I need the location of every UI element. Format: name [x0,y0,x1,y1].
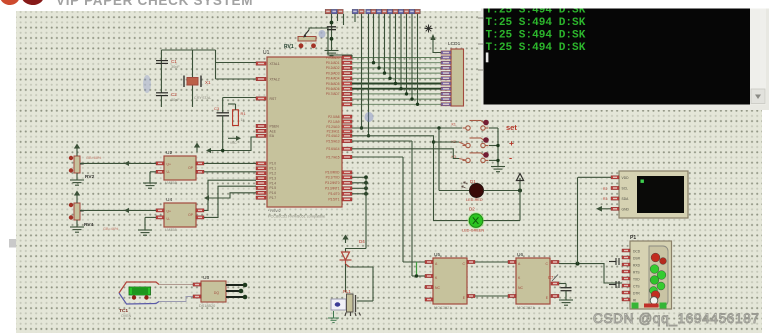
junction P3 junction 1 [364,175,368,179]
net label 13 [404,9,410,14]
net label 5 [359,9,365,14]
svg-text:P1: P1 [630,235,636,241]
svg-text:P1.7: P1.7 [270,196,277,200]
junction U3 out1 end [243,283,248,288]
op-amp U4 body [164,203,196,227]
svg-text:P1.0: P1.0 [270,162,277,166]
pin U2 in2 [156,170,164,173]
wire U3 out2 [226,290,240,292]
wire TC1 bottom to U3 [159,297,193,302]
wire wire into D1 [439,190,470,192]
power terminal U2 supply [195,144,199,153]
svg-text:P0.4/AD4: P0.4/AD4 [326,77,340,81]
pin U1 P1.3 [256,176,266,179]
pin U1 P1.0 [256,162,266,165]
op-amp U2 body [164,156,196,180]
svg-text:GB=68%: GB=68% [86,156,102,160]
pin LCD1 pin 4 [441,66,451,69]
wire P2 to U5 a [352,156,403,158]
oven TC1 outline bottom [119,293,159,304]
wire wire to LCD2 pin4 [600,208,611,210]
junction bus corner 8 [410,97,413,100]
wire P2 to K2/D2 drop [352,136,468,221]
wire U6 to LCD2 vertical [577,177,579,263]
pin LCD1 pin 7 [441,82,451,85]
svg-text:PCC80C52 RVR/8051 compatible: PCC80C52 RVR/8051 compatible [268,215,325,219]
svg-text:DS18B20: DS18B20 [199,304,215,308]
pin U1 P2.0 [342,115,352,118]
watermark logo blob right [20,0,45,6]
P1 connector symbol a [609,258,619,265]
wire U5 vertical a [402,157,404,262]
wire RV4 wiper to U4 [80,209,156,211]
svg-text:GND: GND [622,207,630,211]
pin LCD1 pin 8 [441,87,451,90]
svg-text:P0.6/AD6: P0.6/AD6 [326,87,340,91]
virtual terminal screen [484,9,751,105]
svg-text:P0.1/AD1: P0.1/AD1 [326,61,340,65]
net label 10 [387,9,393,14]
P1 indicator 4 [657,271,666,280]
wire K2 lead [459,142,466,145]
svg-text:SDA: SDA [622,197,630,201]
svg-text:P2.4/A12: P2.4/A12 [326,134,339,138]
wire bus vertical 7 [406,14,408,94]
net label 8 [376,9,382,14]
net label 6 [366,9,372,14]
svg-text:P3.2/INT0: P3.2/INT0 [325,181,340,185]
svg-text:U4: U4 [166,197,172,203]
pin U5 pin5 [467,294,475,297]
svg-text:P1.1: P1.1 [270,167,277,171]
junction C4 rail top [330,21,334,25]
pin LCD2 pin 3 [611,197,619,200]
P1 indicator 8 [651,291,660,300]
wire bus vertical 9 [417,14,419,104]
svg-text:P1.3: P1.3 [270,176,277,180]
svg-text:RV4: RV4 [84,222,94,228]
svg-text:P1.6: P1.6 [270,191,277,195]
pin U1 P2.4 [342,134,352,137]
wire bus vertical 3 [384,14,386,73]
wire U2 gnd lead [149,172,151,183]
pin P1 pin 2 [622,256,630,259]
svg-text:T:25 S:494 D:SK: T:25 S:494 D:SK [486,42,586,54]
P1 bottom marker right [660,303,667,309]
svg-text:D1: D1 [470,179,476,184]
svg-text:VDD: VDD [622,176,630,180]
arrow on LCD2 gnd wire [596,206,602,212]
power terminal Q1 collector supply [343,236,347,244]
pin U1 P0.4 [342,77,352,80]
svg-text:P0.3/AD3: P0.3/AD3 [326,71,340,75]
junction rail junction 1 [496,144,499,147]
pin P1 pin 5 [622,277,630,280]
wire U2 out2 to P1.1 [204,171,256,173]
wire RV4 bottom lead [76,220,78,227]
wire wire to RST [223,97,256,99]
wire U6 pin5 stub [559,283,566,285]
wire wire EA link [211,137,256,151]
watermark csdn text [593,311,760,326]
pin U2 out1 [196,162,204,165]
svg-text:X1: X1 [205,80,211,85]
svg-text:30pF: 30pF [171,65,180,69]
junction bus corner 2 [377,66,380,69]
wire U5 green link [416,262,418,276]
junction bus corner 6 [399,87,402,90]
arrow U2 vcc wire [206,148,211,153]
wire drop to D1 [438,128,440,191]
svg-text:P0.7/AD7: P0.7/AD7 [326,92,340,96]
pin U1 P2.7 [342,155,352,158]
net label 9 [382,9,388,14]
pin LCD1 pin 6 [441,77,451,80]
wire U4 out2 to P1.4 [204,186,256,217]
diode D4 [340,252,352,267]
svg-text:30pF: 30pF [171,98,180,102]
svg-text:D4: D4 [359,239,365,244]
wire U5 in2 wire [412,275,425,277]
junction rail junction 2 [496,159,499,162]
wire P3 stub 2 [352,182,366,184]
pin LCD1 pin 2 [441,56,451,59]
wire bend to diode [346,249,367,253]
pin U1 P1.4 [256,181,266,184]
wire bus vertical 8 [411,14,413,99]
svg-text:P0.5/AD5: P0.5/AD5 [326,82,340,86]
pin P1 pin 6 [622,284,630,287]
pin U1 P0.2 [342,66,352,69]
wire LCD1 power wire [433,40,441,53]
wire P0 bus horizontal 3 [352,67,441,69]
svg-text:P0.0/AD0: P0.0/AD0 [326,56,340,60]
svg-text:GB=46%: GB=46% [103,227,119,231]
wire U4 gnd lead [144,217,146,230]
power terminal RV2 top [75,145,79,157]
wire P0 bus horizontal 4 [352,72,441,74]
svg-text:U5: U5 [434,252,440,258]
ground RV2 [70,180,84,185]
junction U6 out junction [576,262,580,266]
svg-text:RI: RI [633,299,636,303]
C7 variable tick [552,275,558,282]
relay RL1 legs [345,313,361,317]
scrollbar thumb left margin [9,239,16,248]
wire P0 bus horizontal 10 [352,103,441,105]
arrow to LCD1 power [430,34,435,40]
net label 3 [338,9,344,14]
svg-text:SCL: SCL [622,187,629,191]
pin U3 pin2 [193,295,201,298]
svg-text:LCD1: LCD1 [448,41,461,47]
pin U1 XTAL2 [256,77,266,80]
svg-text:DTR: DTR [633,292,640,296]
svg-text:RTS: RTS [633,271,640,275]
wire long vertical to K2 [368,14,370,136]
svg-text:R2: R2 [603,187,607,191]
wire bus vertical 1 [373,14,375,63]
wire U5 to U6 bottom [475,295,508,297]
junction P3 junction 4 [364,192,368,196]
svg-text:U1: U1 [263,50,270,56]
junction bus corner 3 [383,71,386,74]
crystal X1 [184,76,201,88]
net label 4 [352,9,358,14]
wire P0 bus horizontal 1 [352,57,441,59]
wire K1 right stub [489,127,498,129]
svg-text:P2.5/A13: P2.5/A13 [326,139,339,143]
pin LCD1 pin 1 [441,51,451,54]
junction C4 rail lower [330,37,334,41]
svg-text:LED-GREEN: LED-GREEN [462,229,484,233]
net label 14 [409,9,415,14]
terminal border tick marks [478,18,483,70]
svg-text:P1.4: P1.4 [270,181,277,185]
wire RV2 bottom lead [76,173,78,180]
ground buttons [491,167,505,172]
wire P3 stub 3 [352,187,366,189]
svg-text:VCC: VCC [230,141,237,145]
wire P0 bus horizontal 2 [352,62,441,64]
svg-text:R1: R1 [241,111,247,116]
pin U4 out1 [196,209,204,212]
pin U2 in1 [156,162,164,165]
terminal white band redraw [481,0,769,9]
P1 bottom bar [644,304,659,308]
junction K1 top junction [360,126,363,129]
pin U4 in1 [156,209,164,212]
oven TC1 heater [129,287,151,295]
connector P1 shell [649,246,668,306]
pin U1 P0.7 [342,92,352,95]
connector P1 body [630,241,672,309]
pin U1 P0.0 [342,56,352,59]
P1 connector symbol b [609,281,619,288]
wire reset cap lead [222,98,224,113]
wire U4 vcc link [209,193,256,198]
wire RV2 wiper to U2 [80,162,156,164]
ground U4 [138,230,152,235]
wire P3 stub 4 [352,193,366,195]
junction U3 out3 end [243,295,248,300]
wire R1 top lead [235,104,237,110]
svg-text:U+: U+ [167,163,171,167]
microcontroller U1 body [267,57,342,207]
pin U1 P1.7 [256,196,266,199]
pin U1 P1.5 [256,186,266,189]
terminal scrollbar track [750,9,766,105]
svg-text:XTAL1: XTAL1 [270,62,280,66]
switch K1 set button [463,121,489,131]
wire P3 stub 1 [352,176,366,178]
svg-text:K1: K1 [452,123,456,127]
net label 1 [325,9,331,14]
pin LCD1 pin 3 [441,61,451,64]
svg-text:DSR: DSR [633,257,641,261]
pin U6 pin5 [551,282,559,285]
wire crystal top horizontal [161,49,215,51]
pin U1 P2.6 [342,147,352,150]
svg-text:LM358: LM358 [165,181,177,185]
svg-text:+: + [509,138,514,148]
svg-text:-: - [509,153,512,164]
pin U1 P2.3 [342,130,352,133]
svg-text:CRYSTAL: CRYSTAL [194,96,211,100]
svg-text:T:25 S:494 D:SK: T:25 S:494 D:SK [486,30,586,42]
display connector LCD1 body [451,49,464,106]
wire terminal vertical [519,178,521,221]
relay RL1 body [347,294,354,312]
svg-text:DCD: DCD [633,250,641,254]
wire P2 to K3 [352,149,459,159]
junction bus corner 9 [416,103,419,106]
pin U1 P3.3 [342,187,352,190]
svg-text:RXD: RXD [633,264,641,268]
pin U1 XTAL1 [256,62,266,65]
pin U5 pin3 [425,285,433,288]
net label 12 [398,9,404,14]
wire wire to XTAL2 [216,78,257,80]
svg-text:RV2: RV2 [85,174,95,180]
switch K2 plus button [463,138,489,148]
pin U1 P0.8 [342,97,352,100]
svg-text:U+: U+ [167,210,171,214]
junction K2 branch [432,140,435,143]
svg-text:MOC3021: MOC3021 [517,306,534,310]
wire C4 rail vertical [331,14,333,51]
pin LCD1 pin 9 [441,92,451,95]
wire long vertical to K1 [361,14,363,128]
pin LCD2 pin 4 [611,207,619,210]
junction P3 junction 3 [364,186,368,190]
LCD2 screen [637,176,684,213]
pin U5 pin1 [425,260,433,263]
wire wire to XTAL1 [216,62,257,64]
capacitor C4 [327,27,336,30]
resistor RV2 potentiometer [74,156,80,173]
svg-text:* RSV/2: * RSV/2 [268,209,281,213]
net label 11 [393,9,399,14]
diode D2 LED-GREEN [468,212,484,228]
wire U2 in2 stub [150,171,156,173]
IC U5 body [433,258,467,304]
wire wire to LCD2 pin1 [578,176,611,178]
svg-text:P2.6/A14: P2.6/A14 [326,147,339,151]
wire bus vertical 6 [400,14,402,89]
wire right vertical to MCU [215,50,217,79]
svg-text:CTS: CTS [633,285,640,289]
svg-text:XTAL2: XTAL2 [270,77,280,81]
junction bus corner 1 [372,61,375,64]
pin U1 P2.5 [342,139,352,142]
net label 15 [415,9,421,14]
svg-text:P3.0/RXD: P3.0/RXD [325,171,340,175]
svg-text:P2.3/A11: P2.3/A11 [327,130,340,134]
decorative watermark smudge 1 [143,75,151,93]
svg-text:ALE: ALE [270,129,277,133]
resistor R1 [233,110,239,126]
pin U1 P0.9 [342,103,352,106]
arrow VCC terminal [228,137,236,139]
P1 bottom marker left [632,303,639,309]
svg-text:MOC3021: MOC3021 [434,306,451,310]
junction U5 green junction [415,274,418,277]
wire U3 out3 [226,296,244,298]
svg-text:P3.1/TXD: P3.1/TXD [326,176,341,180]
wire P0 bus horizontal 8 [352,93,441,95]
oven TC1 pin dot right [144,295,148,299]
svg-text:P2.2/A10: P2.2/A10 [326,125,339,129]
svg-text:P3.5/T1: P3.5/T1 [328,198,339,202]
P1 indicator 1 [651,253,660,262]
decorative watermark smudge 3 [365,112,374,122]
wire left vertical C1-C2 [160,50,162,93]
resistor RV4 potentiometer [74,203,80,220]
wire D1 to terminal [484,190,521,192]
wire P0 bus horizontal 5 [352,77,441,79]
wire U2 out1 to P1.0 [204,162,256,164]
IC U6 body [516,258,550,304]
pin U1 EA [256,134,266,137]
display LCD2 frame [619,171,688,218]
wire stub label 2 [337,14,339,21]
output terminal triangle [516,174,523,181]
svg-text:U2: U2 [166,150,172,156]
wire C7 bottom lead [565,291,567,300]
wire K3 right stub [489,159,498,161]
svg-text:P1.2: P1.2 [270,172,277,176]
pin U1 PSEN [256,124,266,127]
pin P1 pin 3 [622,263,630,266]
wire branch to K2 [434,141,460,143]
junction bus corner 5 [394,82,397,85]
pin U1 P1.6 [256,191,266,194]
pin U4 out2 [196,216,204,219]
pin U1 P0.3 [342,71,352,74]
pin U1 P3.2 [342,181,352,184]
pin LCD1 pin 11 [441,103,451,106]
pin P1 pin 8 [622,298,630,301]
pin U1 P0.6 [342,87,352,90]
capacitor C3 [217,113,230,116]
svg-text:R3: R3 [603,197,607,201]
wire P0 bus horizontal 9 [352,98,441,100]
arrow U4 vcc wire [204,195,209,200]
svg-text:U6: U6 [517,252,523,258]
wire bus drop [351,55,353,58]
wire stub label 3 [343,14,345,25]
pin U1 P3.0 [342,171,352,174]
svg-text:1k: 1k [241,118,245,122]
svg-text:OVEN: OVEN [121,314,132,318]
switch K3 minus button [463,153,489,163]
wire Q1 right vertical [372,267,374,301]
wire P2 to K1 [352,127,462,129]
svg-text:P3.4/T0: P3.4/T0 [328,192,339,196]
pin U2 out2 [196,170,204,173]
pin dot RV1 left [299,43,304,48]
junction K1/D1 junction [437,126,440,129]
svg-text:U3: U3 [203,275,209,281]
pin U3 pin1 [193,283,201,286]
pin P1 pin 1 [622,249,630,252]
svg-text:P1.5: P1.5 [270,186,277,190]
pin U1 P0.1 [342,61,352,64]
virtual terminal title band [481,0,769,9]
svg-text:P0.2/AD2: P0.2/AD2 [326,66,340,70]
wire U4 out1 to P1.3 [204,180,256,210]
